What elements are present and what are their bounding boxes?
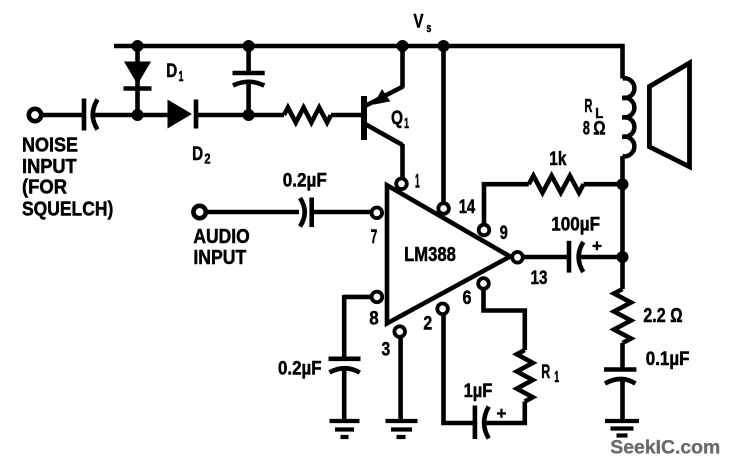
wire cap to diode D2 — [94, 113, 168, 118]
capacitor 1uF flat plate — [473, 406, 478, 440]
wire coil bottom to node A — [620, 156, 625, 184]
capacitor 1uF curved plate — [484, 407, 489, 439]
wire R1 top to pin 6 — [484, 286, 525, 350]
svg-text:6: 6 — [463, 287, 472, 309]
svg-text:1k: 1k — [549, 148, 566, 170]
junction node rail-Q1 emitter — [397, 40, 409, 52]
diode D2 (anode left) — [168, 100, 193, 129]
resistor R1 — [517, 350, 533, 402]
speaker horn — [649, 63, 689, 167]
junction node C — [243, 109, 255, 121]
diode D1 (anode top) — [124, 62, 151, 85]
wire noise input to coupling cap — [42, 113, 83, 118]
pin 3 circle — [394, 326, 405, 337]
capacitor 0.2uF (pin 8 bypass) flat plate — [329, 356, 361, 361]
wire 1k to node A — [584, 182, 623, 187]
wire bypass cap down to node C — [246, 83, 251, 116]
wire Q1 collector to pin 1 — [400, 144, 405, 183]
junction node D (100uF/2.2) — [617, 251, 629, 263]
resistor R-base (squelch) — [284, 108, 331, 123]
svg-text:NOISE: NOISE — [22, 135, 78, 157]
wire pin 3 to ground — [398, 333, 403, 420]
ground G1 — [330, 421, 360, 437]
label R1 — [541, 362, 559, 386]
wire 0.2uF cap to ground — [342, 370, 347, 420]
label Q1 — [391, 108, 409, 132]
svg-text:R: R — [541, 362, 550, 383]
pin 8 circle — [372, 292, 383, 303]
svg-text:0.2µF: 0.2µF — [278, 358, 322, 380]
pin 13 circle — [512, 252, 523, 263]
junction node rail-bypass — [243, 40, 255, 52]
wire node D to 2.2 ohm — [620, 257, 625, 289]
wire node A down to node D — [620, 184, 625, 257]
terminal AUDIO INPUT — [193, 206, 205, 218]
capacitor 100uF flat plate — [567, 241, 572, 273]
svg-text:SeekIC.com: SeekIC.com — [610, 437, 720, 458]
svg-text:V: V — [414, 12, 424, 33]
svg-text:9: 9 — [500, 222, 508, 244]
svg-text:LM388: LM388 — [404, 244, 456, 266]
pin 14 circle — [438, 203, 449, 214]
junction node A (coil/1k) — [617, 178, 629, 190]
svg-text:Ω: Ω — [593, 118, 605, 139]
op-amp U1 LM388 triangle — [387, 185, 510, 323]
wire down to 0.2uF bottom cap — [342, 295, 347, 357]
svg-text:+: + — [592, 237, 602, 256]
label NOISE INPUT (FOR SQUELCH) — [22, 135, 113, 221]
svg-text:0.1µF: 0.1µF — [646, 348, 690, 370]
svg-text:2.2: 2.2 — [643, 305, 665, 327]
wire pin 13 to 100uF cap — [520, 255, 567, 260]
ground G2 — [386, 421, 418, 437]
wire 100uF cap to node D — [581, 255, 623, 260]
wire rail to pin 14 — [441, 46, 446, 207]
wire 2.2 ohm to 0.1uF cap — [620, 343, 625, 368]
wire D2 cathode to node C — [198, 113, 249, 118]
capacitor 0.2uF audio flat plate — [309, 198, 314, 228]
pin 9 circle — [479, 225, 490, 236]
transistor Q1 emitter arrowhead — [374, 89, 391, 105]
wire right branch: rail corner down to coil top — [620, 44, 625, 79]
pin 2 circle — [437, 304, 448, 315]
svg-text:s: s — [426, 20, 431, 35]
pin 6 circle — [478, 278, 489, 289]
pin 7 circle — [372, 208, 383, 219]
svg-text:13: 13 — [531, 267, 548, 289]
resistor 1k — [529, 176, 584, 193]
svg-text:1µF: 1µF — [464, 380, 493, 402]
capacitor 100uF curved plate — [579, 242, 584, 272]
capacitor C-noise curved plate — [93, 100, 98, 130]
wire pin 8 left to bypass branch — [344, 295, 374, 300]
transistor Q1 emitter lead — [366, 87, 403, 106]
capacitor 0.2uF audio curved plate — [300, 198, 305, 227]
transistor Q1 base bar — [361, 96, 367, 140]
svg-text:INPUT: INPUT — [22, 156, 77, 178]
svg-text:8: 8 — [369, 308, 379, 330]
svg-text:3: 3 — [382, 339, 391, 361]
wire node C to base resistor — [249, 113, 284, 118]
capacitor 0.1uF curved plate — [605, 379, 636, 384]
svg-text:AUDIO: AUDIO — [193, 226, 249, 248]
wire pin 9 up and right to 1k — [484, 184, 529, 228]
label D2 — [192, 144, 210, 167]
svg-text:SQUELCH): SQUELCH) — [22, 199, 113, 221]
wire D1 branch from rail to node B — [135, 46, 140, 115]
svg-text:7: 7 — [371, 226, 378, 248]
ground G3 — [605, 421, 639, 436]
transistor Q1 collector lead — [366, 125, 403, 146]
svg-text:14: 14 — [459, 196, 476, 218]
capacitor C-noise flat plate — [82, 99, 87, 131]
svg-text:+: + — [497, 404, 507, 423]
svg-text:0.2µF: 0.2µF — [283, 170, 327, 192]
junction node B — [132, 109, 144, 121]
label D1 — [166, 61, 183, 85]
wire 0.2uF cap to pin 7 — [314, 210, 374, 215]
svg-text:INPUT: INPUT — [193, 247, 246, 269]
svg-text:R: R — [584, 96, 592, 116]
wire 0.1uF cap to ground — [620, 381, 625, 420]
resistor 2.2 ohm — [614, 289, 631, 343]
label Vs — [414, 12, 432, 36]
capacitor C-bypass curved plate — [233, 82, 264, 86]
capacitor 0.1uF flat plate — [604, 367, 636, 372]
capacitor C-bypass flat plate — [233, 71, 265, 76]
wire 1uF cap to R1 bottom — [486, 402, 525, 424]
svg-text:1: 1 — [179, 68, 184, 85]
svg-text:D: D — [192, 144, 203, 165]
svg-text:(FOR: (FOR — [22, 177, 67, 199]
label RL — [584, 96, 603, 122]
svg-text:Ω: Ω — [670, 305, 682, 327]
pin 1 circle — [396, 179, 407, 190]
wire resistor to Q1 base — [331, 113, 362, 118]
capacitor 0.2uF (pin 8 bypass) curved plate — [330, 368, 360, 372]
svg-text:8: 8 — [583, 118, 590, 139]
junction node rail-D1 — [132, 40, 144, 52]
svg-text:Q: Q — [391, 108, 403, 129]
junction node rail-pin14 — [438, 40, 450, 52]
inductor RL 8 ohm (speaker coil) — [623, 78, 635, 156]
svg-text:2: 2 — [423, 313, 432, 335]
wire rail to bypass cap at node C — [246, 46, 251, 71]
svg-text:2: 2 — [204, 150, 210, 167]
wire audio input to 0.2uF cap — [206, 210, 299, 215]
svg-text:1: 1 — [404, 115, 409, 132]
terminal NOISE INPUT — [29, 109, 41, 121]
svg-text:100µF: 100µF — [551, 214, 600, 236]
svg-text:1: 1 — [554, 369, 559, 386]
label 2.2 ohm — [643, 305, 682, 327]
wire pin 2 down and right to 1uF cap — [444, 310, 474, 423]
wire top supply rail Vs — [114, 44, 623, 49]
label AUDIO INPUT — [193, 226, 249, 269]
wire Q1 emitter to rail — [400, 46, 405, 88]
svg-text:1: 1 — [415, 171, 420, 193]
svg-text:D: D — [166, 61, 177, 82]
label 8 ohm — [583, 118, 606, 139]
